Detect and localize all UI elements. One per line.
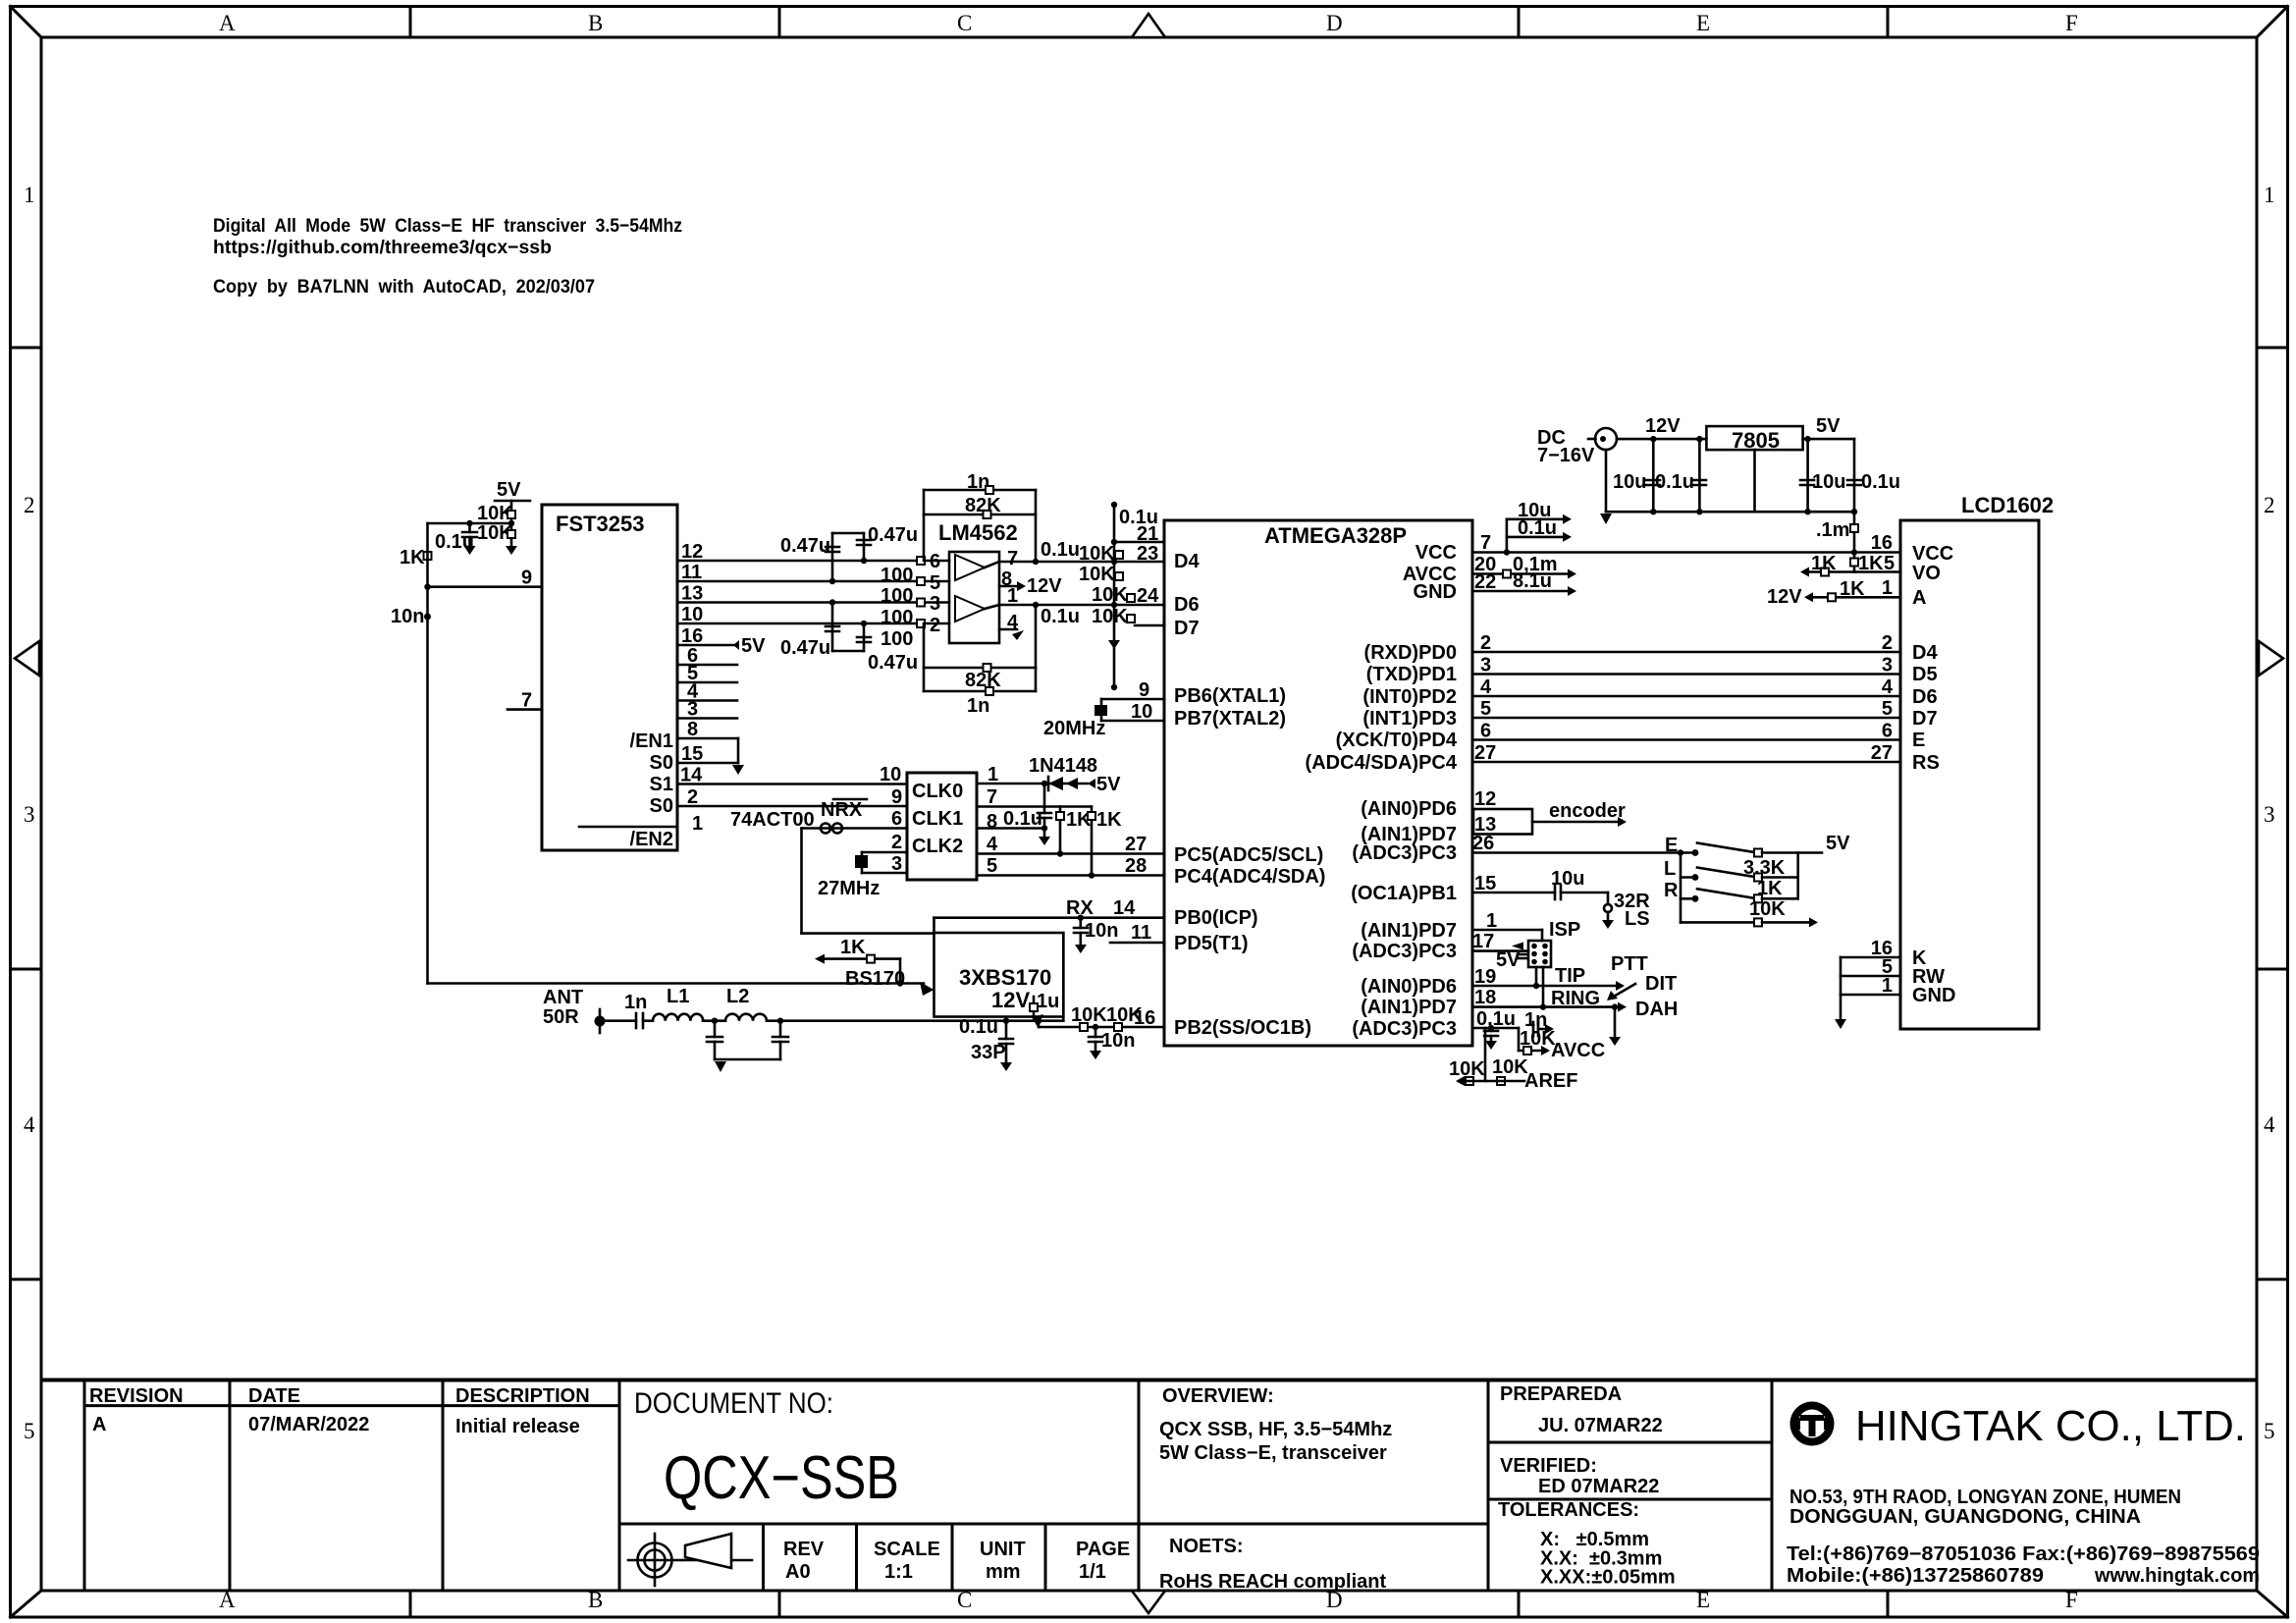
resistor 1K pullup A: [1056, 807, 1092, 854]
capacitor 10u input: [1613, 436, 1660, 515]
wire row17 to ISP: [1472, 943, 1528, 951]
svg-text:10: 10: [681, 604, 703, 625]
svg-text:C: C: [957, 11, 972, 35]
corner diagonal bottom-right: [2257, 1591, 2288, 1617]
wire PC3 to AREF vertical: [1484, 1028, 1487, 1081]
power 5V rail above 10K pullups: [495, 479, 530, 501]
svg-text:27: 27: [1125, 834, 1147, 855]
svg-text:1: 1: [24, 183, 35, 207]
wire 1K to gate row: [899, 959, 902, 984]
svg-text:https://github.com/threeme3/qc: https://github.com/threeme3/qcx−ssb: [213, 237, 552, 258]
resistor 10K above D4 row: [1079, 543, 1123, 565]
wire FST pin6 stub: [677, 664, 737, 667]
power 12V at opamp pin8: [999, 575, 1062, 597]
svg-text:LCD1602: LCD1602: [1961, 493, 2054, 517]
wire FST pin3 stub: [677, 717, 737, 720]
wire D6 bus row: [1472, 695, 1900, 698]
svg-text:8.1u: 8.1u: [1513, 570, 1552, 592]
IC FST3253: [542, 505, 677, 850]
resistor 10K below D6 row: [1092, 606, 1135, 627]
right margin zone ticks: [2257, 348, 2286, 1279]
pin 6 labels E row: [1480, 721, 1893, 742]
svg-text:5V: 5V: [1816, 415, 1841, 437]
ground arrow LCD: [1835, 1019, 1846, 1029]
svg-text:ISP: ISP: [1549, 919, 1580, 941]
svg-text:10: 10: [880, 764, 901, 785]
svg-text:PC5(ADC5/SCL): PC5(ADC5/SCL): [1174, 844, 1323, 866]
svg-text:14: 14: [1113, 897, 1136, 919]
wire drain to PB2 row: [1038, 1021, 1041, 1027]
svg-text:PREPAREDA: PREPAREDA: [1500, 1383, 1622, 1405]
svg-text:2: 2: [24, 493, 35, 517]
svg-text:1K: 1K: [400, 547, 425, 568]
svg-text:0.47u: 0.47u: [780, 535, 830, 557]
svg-text:4: 4: [1882, 676, 1894, 698]
wire FST pin4 stub: [677, 699, 737, 702]
title block verticals: [84, 1380, 1772, 1591]
capacitor 0.1u at CLK: [1003, 784, 1051, 845]
svg-text:4: 4: [24, 1112, 35, 1137]
junction diode row: [1041, 781, 1047, 786]
wire bias node horizontal: [428, 522, 512, 525]
wire antenna row segment 1: [600, 1019, 636, 1022]
capacitor 33P at PA output: [971, 1018, 1013, 1072]
capacitor LPF C1 to ground: [707, 1018, 722, 1060]
wire switch rail vertical: [1680, 853, 1682, 923]
svg-text:L: L: [1664, 858, 1676, 880]
svg-text:27MHz: 27MHz: [818, 878, 880, 899]
power 12V backlight: [1767, 586, 1813, 608]
svg-text:S1: S1: [650, 774, 673, 795]
wire SDA row CLK pin5 to ATMEGA pin28: [977, 874, 1164, 877]
svg-text:AVCC: AVCC: [1551, 1040, 1605, 1061]
svg-text:10K: 10K: [1749, 898, 1786, 920]
svg-text:20MHz: 20MHz: [1043, 718, 1105, 739]
resistor 10K AVCC: [1519, 1028, 1605, 1061]
svg-text:24: 24: [1137, 585, 1159, 607]
resistor 1K backlight: [1810, 578, 1900, 601]
wire FST pin14 row to CLK0: [677, 783, 907, 785]
svg-text:10n: 10n: [1101, 1030, 1135, 1052]
wire CLK pin2 to crystal: [862, 851, 907, 854]
svg-text:0.1u: 0.1u: [959, 1016, 998, 1038]
svg-text:PD5(T1): PD5(T1): [1174, 933, 1249, 954]
wire PB1 row: [1472, 892, 1555, 894]
zone letters bottom: [219, 1588, 2078, 1612]
resistor 10K AREF b: [1492, 1056, 1528, 1085]
svg-text:(TXD)PD1: (TXD)PD1: [1366, 664, 1457, 685]
svg-text:1K: 1K: [1811, 553, 1837, 574]
resistor 1K VO series: [1800, 553, 1900, 577]
svg-text:4: 4: [987, 834, 998, 855]
svg-text:1:1: 1:1: [884, 1561, 913, 1583]
capacitor 10n on TX vertical: [391, 606, 431, 627]
junction pin9 row on vertical: [424, 584, 430, 590]
svg-text:PB7(XTAL2): PB7(XTAL2): [1174, 708, 1286, 730]
svg-text:PB6(XTAL1): PB6(XTAL1): [1174, 685, 1286, 707]
IC ATMEGA328P box: [1164, 520, 1472, 1046]
svg-text:17: 17: [1472, 931, 1494, 952]
corner diagonal top-left: [11, 7, 42, 38]
wire PB2 row: [1039, 1026, 1164, 1029]
wire PC3 bottom stub: [1472, 1027, 1519, 1030]
paddle DIT blade: [1607, 973, 1677, 1001]
wire feedback left vertical top: [923, 490, 926, 561]
wire RS bus row: [1472, 761, 1900, 764]
svg-text:C: C: [957, 1588, 972, 1612]
svg-text:Copy by BA7LNN with AutoCAD, 2: Copy by BA7LNN with AutoCAD, 202/03/07: [213, 276, 595, 298]
svg-text:TOLERANCES:: TOLERANCES:: [1498, 1499, 1639, 1521]
svg-text:7: 7: [1007, 548, 1018, 569]
connector DC jack: [1537, 427, 1617, 466]
svg-text:F: F: [2065, 11, 2078, 35]
svg-text:D7: D7: [1912, 708, 1938, 730]
svg-text:12V: 12V: [1645, 415, 1681, 437]
svg-text:2: 2: [1480, 632, 1491, 654]
svg-text:4: 4: [2264, 1112, 2275, 1137]
wire VCC row to LCD: [1472, 551, 1900, 554]
svg-text:S0: S0: [650, 752, 673, 774]
wire FST pin2 row to CLK1: [677, 805, 907, 808]
resistor 100 row10: [881, 620, 925, 650]
junction 0.1u on pin21 row: [1111, 539, 1117, 545]
svg-text:6: 6: [891, 808, 902, 830]
svg-text:5: 5: [24, 1419, 35, 1443]
svg-text:GND: GND: [1912, 985, 1955, 1006]
resistor 1K gate pulldown: [815, 937, 900, 964]
svg-text:1: 1: [1882, 975, 1893, 997]
capacitor 8.1u GND: [1472, 570, 1576, 596]
wire DC jack down: [1605, 450, 1608, 512]
svg-text:12V: 12V: [1767, 586, 1802, 608]
corner diagonal bottom-left: [11, 1591, 42, 1617]
svg-text:0.47u: 0.47u: [780, 637, 830, 659]
revision header underline: [84, 1404, 619, 1407]
wire opamp B out to ATMEGA D6: [999, 604, 1164, 607]
svg-text:FST3253: FST3253: [556, 512, 645, 536]
svg-text:5V: 5V: [1096, 774, 1121, 795]
svg-text:7−16V: 7−16V: [1537, 445, 1595, 466]
capacitor 0.1u VCC: [1507, 517, 1572, 542]
pin 2 labels D4 row: [1480, 632, 1893, 654]
svg-text:3: 3: [2264, 802, 2275, 827]
svg-text:5: 5: [1884, 553, 1895, 574]
crystal 20MHz: [1043, 699, 1107, 739]
svg-text:5V: 5V: [497, 479, 521, 501]
svg-text:CLK1: CLK1: [912, 808, 963, 830]
svg-text:(OC1A)PB1: (OC1A)PB1: [1351, 883, 1457, 904]
svg-text:9: 9: [521, 568, 532, 589]
svg-text:www.hingtak.com: www.hingtak.com: [2094, 1565, 2260, 1587]
svg-text:D5: D5: [1912, 664, 1938, 685]
svg-text:2: 2: [1882, 632, 1893, 654]
junction bias node: [466, 520, 472, 526]
svg-text:10K: 10K: [1079, 564, 1115, 585]
svg-text:3: 3: [1480, 655, 1491, 676]
capacitor 0.47u input A label: [780, 533, 839, 581]
capacitor 0.1u output: [1847, 471, 1900, 493]
wire feedback right vertical top: [1035, 490, 1038, 562]
wire D5 bus row: [1472, 673, 1900, 676]
resistor 1K pullup B: [1088, 807, 1122, 876]
svg-text:E: E: [1696, 1588, 1710, 1612]
svg-text:27: 27: [1871, 742, 1893, 764]
svg-text:1K: 1K: [1096, 809, 1122, 831]
capacitor 0.47u input B label: [832, 524, 918, 561]
svg-text:(INT0)PD2: (INT0)PD2: [1362, 686, 1457, 708]
svg-text:3: 3: [1882, 655, 1893, 676]
svg-text:mm: mm: [986, 1561, 1021, 1583]
svg-text:15: 15: [681, 743, 703, 765]
diode 1N4148: [1029, 755, 1097, 790]
svg-text:L1: L1: [667, 986, 689, 1007]
power 5V at FST pin16: [733, 635, 766, 657]
capacitor 10n on RX: [1074, 915, 1118, 954]
projection logo cone: [682, 1534, 752, 1568]
svg-text:PB2(SS/OC1B): PB2(SS/OC1B): [1174, 1017, 1311, 1039]
wire right edge drop from NRX box: [1062, 934, 1065, 1021]
resistor 82K top: [924, 495, 1036, 518]
svg-text:NRX: NRX: [821, 799, 863, 821]
net NRX label with overbar: [821, 799, 867, 821]
svg-text:0.1u: 0.1u: [1041, 606, 1080, 627]
left centring mark: [15, 641, 39, 676]
svg-text:REVISION: REVISION: [89, 1385, 184, 1407]
gate inverter bubbles: [821, 824, 842, 834]
junction 0.1u on D6 row: [1111, 602, 1117, 608]
junction at pullups: [508, 520, 514, 526]
svg-text:Tel:(+86)769−87051036 Fax:(+86: Tel:(+86)769−87051036 Fax:(+86)769−89875…: [1787, 1543, 2260, 1565]
svg-text:10K: 10K: [1092, 606, 1128, 627]
svg-text:REV: REV: [783, 1539, 825, 1560]
svg-text:D6: D6: [1174, 594, 1200, 616]
transistor PA 3XBS170 box: [934, 933, 1064, 1017]
wire 5V down through pullups: [510, 501, 513, 546]
wire encoder with arrow: [1532, 800, 1627, 827]
junction 0.47u on row12: [861, 558, 867, 564]
svg-text:5: 5: [2264, 1419, 2275, 1443]
resistor 10K above D6 row: [1092, 584, 1135, 606]
svg-text:10K: 10K: [1079, 543, 1115, 565]
top margin zone ticks: [410, 8, 1888, 37]
junction SCK on RING row: [1540, 1003, 1546, 1009]
resistor 0,1m AVCC: [1472, 554, 1576, 579]
svg-text:2: 2: [930, 615, 940, 636]
svg-text:07/MAR/2022: 07/MAR/2022: [248, 1414, 369, 1435]
projection logo crosshair circle: [628, 1534, 682, 1586]
svg-text:D4: D4: [1912, 642, 1938, 664]
wire K RW GND tie vertical: [1840, 957, 1842, 1019]
junction MOSI on TIP row: [1533, 983, 1539, 989]
wire XTAL1 stub: [1101, 698, 1164, 701]
svg-text:(AIN1)PD7: (AIN1)PD7: [1361, 997, 1457, 1018]
rev/scale/unit/page cell verticals: [764, 1524, 1046, 1591]
svg-text:6: 6: [1882, 721, 1893, 742]
svg-text:OVERVIEW:: OVERVIEW:: [1162, 1385, 1274, 1407]
svg-text:1: 1: [1882, 577, 1893, 599]
svg-text:F: F: [2065, 1588, 2078, 1612]
svg-text:NO.53, 9TH RAOD, LONGYAN ZONE,: NO.53, 9TH RAOD, LONGYAN ZONE, HUMEN: [1789, 1487, 2181, 1508]
title block top line: [41, 1379, 2257, 1382]
switch L: [1664, 858, 1798, 882]
wire E bus row: [1472, 738, 1900, 741]
svg-text:A0: A0: [785, 1561, 811, 1583]
wire CLK pin8 row: [977, 827, 1044, 830]
wire jack sleeve ground: [1609, 1003, 1621, 1046]
wire K row: [1841, 956, 1900, 959]
svg-text:50R: 50R: [543, 1006, 579, 1028]
svg-text:1: 1: [692, 813, 703, 835]
junction 0.47u on row10: [861, 621, 867, 626]
wire D7 stub: [1135, 624, 1164, 627]
svg-text:(AIN0)PD6: (AIN0)PD6: [1361, 798, 1457, 820]
wire RX drop to PA box: [933, 918, 935, 933]
inductor L2: [725, 986, 767, 1021]
inductor L1: [653, 986, 703, 1021]
junction feedback on D6 row: [1033, 602, 1039, 608]
wire FST pin10 row: [677, 622, 949, 625]
prepared/verified dividers: [1488, 1442, 1772, 1499]
svg-text:14: 14: [680, 765, 703, 786]
wire antenna row segment 4: [767, 1019, 1063, 1022]
svg-text:(ADC3)PC3: (ADC3)PC3: [1352, 1018, 1457, 1040]
svg-text:10n: 10n: [391, 606, 424, 627]
svg-text:5W Class−E, transceiver: 5W Class−E, transceiver: [1159, 1442, 1387, 1464]
svg-text:0.47u: 0.47u: [868, 652, 918, 674]
resistor 32R speaker: [1602, 891, 1650, 929]
resistor 10K pullup lower: [477, 522, 515, 544]
svg-text:5: 5: [987, 855, 997, 877]
pin 27 labels RS row: [1474, 742, 1893, 764]
svg-text:33P: 33P: [971, 1042, 1006, 1063]
svg-text:1n: 1n: [624, 992, 647, 1013]
svg-text:10u: 10u: [1812, 471, 1845, 493]
top centring mark: [1132, 14, 1165, 37]
junction 0.47u on row11: [829, 578, 835, 584]
svg-text:DAH: DAH: [1635, 999, 1678, 1020]
capacitor 1n PC3: [1519, 1009, 1554, 1051]
svg-text:RING: RING: [1551, 988, 1600, 1009]
svg-text:5: 5: [930, 572, 940, 594]
svg-text:9: 9: [1139, 679, 1149, 701]
encoder connector box: [1473, 788, 1532, 836]
wire TIP row: [1472, 965, 1625, 991]
svg-text:RS: RS: [1912, 752, 1940, 774]
junction VCC decoupling: [1504, 549, 1510, 555]
svg-text:DONGGUAN, GUANGDONG, CHINA: DONGGUAN, GUANGDONG, CHINA: [1789, 1506, 2141, 1528]
wire opamp A out to ATMEGA D4: [999, 561, 1164, 564]
wire ATMEGA pin21 stub: [1114, 541, 1164, 544]
svg-text:L2: L2: [726, 986, 749, 1007]
wire FST pin16 stub to 5V: [677, 644, 733, 647]
svg-text:0.1u: 0.1u: [1655, 471, 1694, 493]
svg-text:TIP: TIP: [1555, 965, 1585, 987]
wire FST pin7 stub: [507, 708, 542, 711]
junction VCC at LCD: [1851, 549, 1857, 555]
wire FST pin12 row: [677, 560, 949, 563]
svg-text:11: 11: [1131, 922, 1151, 944]
svg-text:0,1u: 0,1u: [1476, 1008, 1516, 1030]
zone letters top: [219, 11, 2078, 35]
wire TX gate row to BS170: [428, 982, 925, 985]
resistor 82K bottom: [924, 664, 1036, 691]
svg-text:E: E: [1665, 835, 1678, 856]
capacitor 1n bottom: [924, 687, 1036, 717]
svg-text:DATE: DATE: [248, 1385, 300, 1407]
svg-text:VO: VO: [1912, 563, 1941, 584]
wire CLK pin1 row: [977, 783, 1088, 785]
wire FST pin8 stub: [677, 737, 738, 740]
svg-text:10u: 10u: [1613, 471, 1646, 493]
svg-text:1K: 1K: [840, 937, 866, 958]
switch E: [1665, 835, 1822, 857]
power 5V at diode: [1088, 774, 1121, 795]
svg-text:JU. 07MAR22: JU. 07MAR22: [1538, 1415, 1663, 1436]
ground arrow power: [1600, 514, 1612, 524]
op-amp U2 body box: [949, 552, 999, 643]
wire pin8 to pin15 tie: [737, 738, 740, 763]
wire FST pin15 stub: [677, 762, 738, 765]
svg-text:B: B: [588, 11, 603, 35]
capacitor 0.1u bias decoupling: [435, 523, 477, 555]
svg-text:(ADC3)PC3: (ADC3)PC3: [1352, 842, 1457, 864]
wire power ground rail: [1606, 511, 1854, 514]
svg-text:9: 9: [891, 786, 902, 808]
capacitor 0,1u PC3: [1476, 1008, 1516, 1050]
junction 1K B bottom: [1089, 872, 1095, 878]
svg-text:QCX SSB, HF, 3.5−54Mhz: QCX SSB, HF, 3.5−54Mhz: [1159, 1419, 1392, 1440]
resistor 10K PB2 B: [1106, 1004, 1143, 1031]
svg-text:DOCUMENT NO:: DOCUMENT NO:: [634, 1387, 833, 1420]
power 5V ISP: [1496, 949, 1527, 971]
junction rail top: [1678, 849, 1683, 855]
svg-text:NOETS:: NOETS:: [1169, 1536, 1244, 1557]
svg-text:3XBS170: 3XBS170: [959, 965, 1051, 990]
svg-text:12: 12: [1474, 788, 1496, 810]
svg-text:Digital All Mode 5W Class−E HF: Digital All Mode 5W Class−E HF transcive…: [213, 215, 682, 237]
gate arrow into PA box: [920, 982, 934, 996]
svg-text:A: A: [219, 1588, 236, 1612]
ground arrow LPF: [715, 1061, 726, 1072]
svg-text:10n: 10n: [1085, 920, 1118, 942]
svg-text:5V: 5V: [1496, 949, 1521, 971]
svg-text:A: A: [219, 11, 236, 35]
svg-text:(AIN0)PD6: (AIN0)PD6: [1361, 976, 1457, 998]
wire long left vertical TX line: [426, 523, 429, 984]
svg-text:DESCRIPTION: DESCRIPTION: [455, 1385, 590, 1407]
svg-text:8: 8: [687, 719, 698, 740]
corner diagonal top-right: [2257, 7, 2288, 38]
junction 1K A bottom: [1057, 850, 1063, 856]
wire antenna row segment 3: [703, 1019, 725, 1022]
wire CLK pin7 row: [977, 805, 1092, 808]
svg-text:GND: GND: [1414, 581, 1457, 603]
switch R: [1664, 880, 1798, 902]
resistor 100 row11: [881, 577, 925, 607]
bottom margin zone ticks: [410, 1591, 1888, 1615]
zone numbers left: [24, 183, 35, 1443]
wire pin1 to ISP: [1472, 930, 1542, 941]
pin 5 labels D7 row: [1480, 698, 1893, 720]
svg-text:LS: LS: [1625, 908, 1650, 930]
svg-text:3.3K: 3.3K: [1743, 857, 1786, 879]
svg-text:5: 5: [1480, 698, 1491, 720]
svg-text:26: 26: [1472, 833, 1494, 854]
junction gate row: [897, 980, 903, 986]
svg-text:PC4(ADC4/SDA): PC4(ADC4/SDA): [1174, 866, 1325, 888]
wire FST pin13 row: [677, 601, 949, 604]
svg-text:encoder: encoder: [1549, 800, 1626, 822]
